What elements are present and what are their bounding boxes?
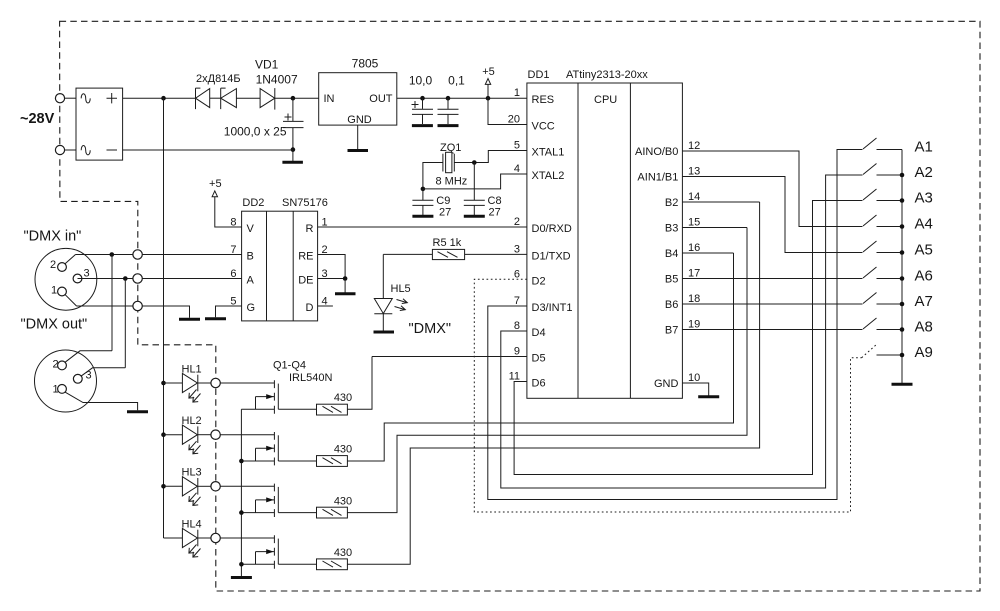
wire R5 to HL5 [383,253,432,255]
switch SA4 blade [863,215,877,226]
svg-text:3: 3 [86,370,92,382]
wire crystal left to XTAL2 net [423,163,443,189]
svg-text:1: 1 [53,384,59,396]
svg-text:19: 19 [688,319,700,331]
svg-text:A6: A6 [915,268,933,285]
node junction dot A7 [900,302,905,307]
wire A line DMX to DD2 [78,278,242,280]
rectifier block box [76,88,123,160]
transistor Q4 [241,535,316,568]
LED HL2 [164,425,211,444]
wire DD1 GND pin 10 [682,383,708,396]
svg-text:2хД814Б: 2хД814Б [196,73,241,85]
svg-text:IN: IN [324,93,335,105]
resistor 430 row3 [317,507,348,518]
wire D3/INT1 pin7 to A1 row [488,150,863,500]
node junction dot LED bus row2 [161,432,166,437]
svg-text:D3/INT1: D3/INT1 [532,302,573,314]
XS1 pin 1 circle [58,287,67,296]
resistor R5 [432,249,464,259]
svg-text:430: 430 [334,444,352,456]
svg-text:7805: 7805 [352,57,379,71]
svg-text:DD2: DD2 [242,197,264,209]
svg-text:4: 4 [514,163,520,175]
IC DD2 box [242,211,318,321]
wire output1 to Q1 drain [220,382,274,384]
pin numbers DD1 left [508,87,520,382]
LED HL3 [164,477,211,496]
switch SA8 blade [863,318,877,329]
IC DD2 internal dividers [267,211,294,321]
transistor Q1 [241,380,316,413]
svg-text:A5: A5 [915,242,933,259]
svg-text:D: D [306,302,314,314]
svg-text:D4: D4 [532,327,546,339]
svg-text:20: 20 [508,114,520,126]
pin labels DD2 left [247,223,256,314]
wire output4 to Q4 drain [220,537,274,539]
XS2 pin 1 lead [65,392,138,410]
pin labels DD2 right [298,223,313,314]
wire 7805 OUT to RES [397,97,527,99]
svg-text:HL2: HL2 [182,415,202,427]
svg-text:RES: RES [532,94,555,106]
wire B0 pin12 to A4 row [682,151,862,227]
XS1 pin 3 circle [73,274,82,283]
svg-text:"DMX": "DMX" [409,321,452,337]
wire R3 to B3 riser [347,228,747,513]
switch SA4 right wire [877,226,903,228]
transistor Q3 [241,484,316,517]
XS1 pin 2 circle [58,263,67,272]
power arrow +5 DD2 V pin [212,191,242,227]
terminal circle output 3 [211,482,220,491]
rectifier plus sign [107,93,118,103]
svg-text:HL5: HL5 [391,283,411,295]
zener diode VD (1 of 2) [196,88,210,109]
node junction dot A3 [900,198,905,203]
LED HL5 [374,254,392,330]
ground source bus [231,576,252,579]
switch SA7 blade [863,293,877,304]
IC DD1 box [527,83,683,398]
svg-text:B4: B4 [665,248,678,260]
wire DD2 D stub pin 4 [318,305,333,307]
svg-text:0,1: 0,1 [448,74,465,88]
wire D1/TXD to R5 [465,253,527,255]
node junction dot +28V bus tap [161,96,166,101]
wire R4 to B2 riser [347,202,759,564]
pin labels DD1 right [635,146,678,390]
svg-text:430: 430 [334,547,352,559]
wire D5 line [372,356,527,358]
resistor 430 row2 [317,456,348,467]
svg-text:B2: B2 [665,197,678,209]
wire C8 riser [473,163,475,201]
svg-text:A1: A1 [915,139,933,156]
capacitor C9 [412,189,433,215]
svg-text:D6: D6 [532,378,546,390]
svg-text:15: 15 [688,217,700,229]
svg-text:C9: C9 [436,195,450,207]
wire R1 to D5 riser [347,357,372,410]
wire dotted D2 pin6 to A9 [474,279,861,512]
svg-text:1N4007: 1N4007 [256,73,298,87]
XS1 pin 3 lead [82,278,100,280]
svg-text:A4: A4 [915,216,933,233]
wire RE-DE to ground [344,279,346,293]
switch SA2 right wire [877,174,903,176]
svg-text:HL4: HL4 [182,518,202,530]
ground below HL5 [374,331,395,334]
resistor 430 row1 [317,404,348,415]
LED HL4 arrows [189,545,197,554]
svg-text:A3: A3 [915,190,933,207]
svg-text:1000,0 x 25: 1000,0 x 25 [224,125,287,139]
svg-text:3: 3 [514,243,520,255]
svg-text:6: 6 [514,268,520,280]
terminal circle B on board edge [133,250,142,259]
ground shield [179,318,200,321]
svg-text:27: 27 [489,207,501,219]
node junction dot A5 [900,250,905,255]
wire common A bus [901,150,903,384]
zener diode VD (2 of 2) [221,88,237,109]
terminal circle output 1 [211,378,220,387]
svg-text:10: 10 [688,372,700,384]
svg-text:+5: +5 [209,178,222,190]
XS1 pin 1 lead [65,294,77,306]
svg-text:GND: GND [654,378,679,390]
svg-text:DE: DE [298,275,313,287]
ground below DD1 pin10 [698,395,719,398]
node junction dot source bus q4 [239,562,244,567]
XS2 pin 3 lead [81,368,126,377]
transistor Q2 [241,432,316,465]
switch SA9 dotted blade [862,345,877,358]
capacitor C8 [464,200,485,215]
svg-text:VD1: VD1 [255,58,279,72]
svg-text:OUT: OUT [369,93,393,105]
svg-text:HL3: HL3 [182,467,202,479]
wire input top [65,97,76,99]
switch SA1 right wire [877,149,903,151]
wire DD2 R to DD1 D0/RXD [318,226,527,228]
node junction dot minus rail [291,147,296,152]
node junction dot A line [123,276,128,281]
wire between zeners [210,97,221,99]
node junction dot A9 [900,353,905,358]
connector XS2 DMX out shell [35,350,97,412]
wire R2 to B4 riser [347,253,733,461]
svg-text:A9: A9 [915,344,933,361]
wire B4 pin16 [682,252,733,254]
rectifier minus sign [107,149,118,151]
wire B line DMX to DD2 [76,254,242,256]
XS2 pin 2 lead [65,351,112,363]
svg-text:A: A [247,275,255,287]
svg-text:V: V [247,223,255,235]
svg-text:DD1: DD1 [528,69,550,81]
svg-text:~28V: ~28V [20,111,55,127]
svg-text:B5: B5 [665,274,678,286]
wire B2 pin14 [682,201,759,203]
wire DD2 RE jumper [318,255,346,279]
node junction dot RE-DE [343,276,348,281]
capacitor 10,0 [412,98,433,124]
voltage regulator 7805 box [319,73,397,125]
terminal circle output 2 [211,430,220,439]
svg-text:GND: GND [347,114,372,126]
LED HL1 arrows [189,390,197,399]
wire 7805 GND lead [357,125,359,149]
ground below XS2 [127,410,148,413]
wire +28V rail [123,97,196,99]
svg-text:2: 2 [50,259,56,271]
svg-text:7: 7 [514,295,520,307]
node junction dot source bus q3 [239,510,244,515]
svg-text:14: 14 [688,191,700,203]
svg-text:16: 16 [688,242,700,254]
capacitor 10,0 plus mark [412,101,419,108]
wire A drop to XS2 pin3 [124,279,126,368]
svg-text:D2: D2 [532,275,546,287]
node junction dot A4 [900,224,905,229]
wire +28V vertical bus to LED rows [163,98,165,538]
svg-text:18: 18 [688,293,700,305]
wire B3 pin15 [682,227,747,229]
svg-text:2: 2 [514,216,520,228]
svg-text:430: 430 [334,495,352,507]
ground below 7805 [348,149,369,152]
svg-text:D0/RXD: D0/RXD [532,223,572,235]
wire output2 to Q2 drain [220,434,274,436]
svg-text:13: 13 [688,166,700,178]
node junction dot LED bus row1 [161,381,166,386]
ground below C1000 [282,161,303,164]
wire VD1 to 7805 IN [275,97,319,99]
svg-text:+5: +5 [482,66,495,78]
node junction dot crystal right [472,160,477,165]
XS2 pin 3 circle [73,374,82,383]
pin numbers DD1 right [688,140,700,384]
terminal circle A on board edge [133,274,142,283]
switch SA5 blade [863,241,877,252]
XS1 pin 2 lead [65,255,76,265]
svg-text:5: 5 [514,140,520,152]
wire B7 pin19 to A8 row [682,329,862,331]
node junction dot cap 10,0 [420,96,425,101]
wire D4 pin8 to A2 row [501,175,863,488]
capacitor 0,1 [438,98,459,124]
capacitor C 1000,0x25 plus mark [285,114,292,121]
wire zener to VD1 [236,97,260,99]
terminal circle X1.1 [55,94,64,103]
ground below cap 10,0 [412,124,433,127]
ground A bus [892,383,913,386]
svg-text:Q1-Q4: Q1-Q4 [273,360,306,372]
switch SA8 right wire [877,329,903,331]
node junction dot XTAL2 net [421,187,426,192]
svg-text:CPU: CPU [594,94,617,106]
svg-text:B6: B6 [665,299,678,311]
svg-text:1: 1 [51,285,57,297]
svg-text:3: 3 [84,268,90,280]
switch SA6 blade [863,267,877,278]
wire input bottom [65,149,76,151]
switch SA3 right wire [877,200,903,202]
capacitor C 1000,0x25 [283,98,304,161]
wire B drop to XS2 pin2 [111,255,113,351]
svg-text:SN75176: SN75176 [282,197,328,209]
svg-text:27: 27 [439,207,451,219]
svg-text:IRL540N: IRL540N [289,372,332,384]
LED HL4 [164,528,211,547]
wire source bus [240,409,242,576]
wire output3 to Q3 drain [220,485,274,487]
switch SA3 blade [863,189,877,200]
LED HL1 [164,373,211,392]
LED HL5 arrows [395,299,408,311]
svg-text:A2: A2 [915,164,933,181]
svg-text:8 MHz: 8 MHz [436,176,468,188]
connector XS1 DMX in shell [35,248,97,310]
svg-text:RE: RE [298,251,313,263]
node junction dot A2 [900,173,905,178]
svg-text:12: 12 [688,140,700,152]
ground below DD2 G [205,317,226,320]
wire DD2 DE jumper [318,278,346,280]
terminal circle X1.2 [55,145,64,154]
svg-text:G: G [247,302,256,314]
diode VD1 [260,88,275,110]
node junction dot A8 [900,327,905,332]
svg-text:"DMX out": "DMX out" [21,317,88,333]
power arrow +5 VCC [485,79,490,99]
svg-text:10,0: 10,0 [409,74,433,88]
switch SA2 blade [863,164,877,175]
wire B6 pin18 to A7 row [682,303,862,305]
svg-text:2: 2 [53,359,59,371]
pin labels DD1 left [532,94,573,389]
switch SA6 right wire [877,278,903,280]
svg-text:AIN1/B1: AIN1/B1 [637,172,678,184]
wire VCC branch [488,98,527,124]
node junction dot B line [110,252,115,257]
wire D6 pin11 to A3 row [514,201,862,475]
svg-text:HL1: HL1 [182,363,202,375]
wire DD2 G lead [216,306,242,317]
rectifier AC squiggle top [81,94,90,103]
svg-text:1: 1 [514,87,520,99]
svg-text:VCC: VCC [532,121,555,133]
svg-text:8: 8 [514,320,520,332]
wire shield line to ground [77,306,190,318]
svg-text:430: 430 [334,392,352,404]
svg-text:B7: B7 [665,325,678,337]
ground below cap 0,1 [438,124,459,127]
terminal circle shield on board edge [133,301,142,310]
switch SA1 blade [863,138,877,149]
IC DD1 internal dividers [578,83,630,398]
LED HL2 arrows [189,441,197,450]
resistor 430 row4 [317,559,348,570]
svg-text:B3: B3 [665,223,678,235]
pin numbers DD2 left [230,217,236,308]
svg-text:11: 11 [509,371,520,383]
svg-text:D1/TXD: D1/TXD [532,250,571,262]
ground below C9 [412,215,433,218]
svg-text:A7: A7 [915,293,933,310]
svg-text:A8: A8 [915,319,933,336]
svg-text:R5 1k: R5 1k [433,237,462,249]
rectifier AC squiggle bottom [81,146,90,155]
node junction dot cap 0,1 [446,96,451,101]
wire XTAL2 line [423,174,527,189]
node junction dot at C input [291,96,296,101]
pin numbers DD2 right [322,217,328,308]
crystal ZQ1 [443,152,454,172]
wire minus rail [123,149,293,151]
svg-text:XTAL1: XTAL1 [532,147,565,159]
switch SA7 right wire [877,303,903,305]
svg-text:B: B [247,251,254,263]
wire B5 pin17 to A6 row [682,278,862,280]
svg-text:"DMX in": "DMX in" [24,229,82,245]
switch SA9 right wire [877,354,903,356]
svg-text:R: R [306,223,314,235]
svg-text:D5: D5 [532,353,546,365]
svg-text:C8: C8 [488,195,502,207]
svg-text:XTAL2: XTAL2 [532,170,565,182]
terminal circle output 4 [211,533,220,542]
ground below C8 [464,215,485,218]
svg-text:9: 9 [514,346,520,358]
XS2 pin 2 circle [58,361,67,370]
node junction dot A6 [900,276,905,281]
node junction dot LED bus row3 [161,484,166,489]
svg-text:AINO/B0: AINO/B0 [635,146,678,158]
node junction dot source bus q2 [239,459,244,464]
wire B1 pin13 to A5 row [682,177,862,253]
svg-text:ATtiny2313-20xx: ATtiny2313-20xx [566,69,648,81]
LED HL3 arrows [189,493,197,502]
ground below RE-DE [335,292,356,295]
svg-text:17: 17 [688,268,700,280]
XS2 pin 1 circle [58,385,67,394]
wire XTAL1 to crystal [454,151,527,163]
switch SA5 right wire [877,252,903,254]
node junction dot +5 [486,96,491,101]
